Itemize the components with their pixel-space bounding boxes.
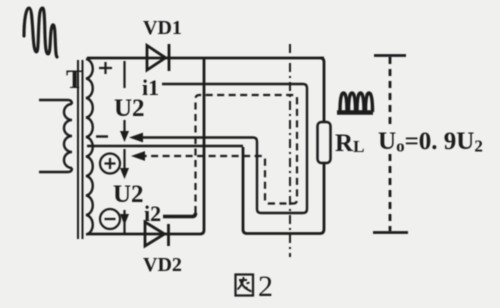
Uo dimension line (dashed) with end bars [373,56,408,233]
vertical section line (dash-dot) [289,44,291,257]
svg-text:VD1: VD1 [143,17,182,39]
svg-text:U2: U2 [114,95,145,122]
transformer primary top lead [39,100,72,104]
U2 voltage arrow lower winding [123,149,125,233]
transformer primary bottom lead [39,168,72,172]
i1 current path (solid loop) [133,84,307,213]
svg-text:U2: U2 [113,181,144,208]
transformer secondary winding (center-tapped) [86,59,93,235]
figure caption 图2 [236,275,254,296]
diode VD2 [145,222,169,246]
node secondary top / wire to VD1 (top wire) [87,57,324,60]
bottom wire secondary to VD2 and node A riser [87,58,204,234]
AC input sine waveform symbol [24,8,57,57]
svg-text:i1: i1 [142,75,159,100]
center tap wire to node B [87,145,243,147]
i2 current path (dashed loop) [135,95,297,213]
svg-text:Uo=0. 9U2: Uo=0. 9U2 [378,128,483,156]
wire node B down to bottom wire [243,147,247,234]
diode VD1 [147,44,169,71]
wire top node to RL and RL branch down [247,58,324,234]
U2 voltage arrow upper winding [123,61,125,134]
svg-text:VD2: VD2 [143,254,182,276]
svg-text:i2: i2 [144,201,161,226]
minus sign of upper winding [96,135,108,137]
transformer primary winding [64,104,72,168]
svg-text:T: T [66,65,83,94]
svg-text:2: 2 [258,270,273,303]
i2 stub from label [163,213,196,217]
circled plus of lower winding [100,154,120,174]
i2 return arrowhead [131,151,145,161]
i1 return arrowhead [129,133,143,143]
plus sign of upper winding [99,62,112,74]
rectified output waveform above RL [337,93,373,113]
transformer core [78,60,83,239]
circled minus of lower winding [100,209,120,229]
resistor RL [318,122,331,163]
